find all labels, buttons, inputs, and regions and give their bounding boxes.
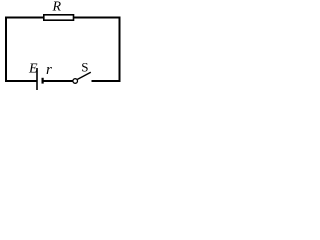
resistor R body: [44, 15, 74, 20]
wire right vertical: [119, 17, 121, 83]
svg-text:r: r: [46, 62, 52, 78]
switch S lever: [77, 72, 90, 79]
battery E short plate: [41, 78, 43, 84]
wire switch-to-right segment: [92, 80, 121, 82]
svg-text:E: E: [28, 62, 38, 77]
svg-text:R: R: [52, 0, 62, 15]
wire top-right segment: [73, 17, 121, 19]
svg-text:S: S: [81, 60, 88, 75]
wire top-left segment: [5, 17, 44, 19]
wire left vertical: [5, 17, 7, 83]
wire bottom-left segment: [5, 80, 37, 82]
battery E long plate: [36, 68, 38, 90]
wire battery-to-switch segment: [44, 80, 74, 82]
switch S fixed contact circle: [73, 79, 78, 84]
